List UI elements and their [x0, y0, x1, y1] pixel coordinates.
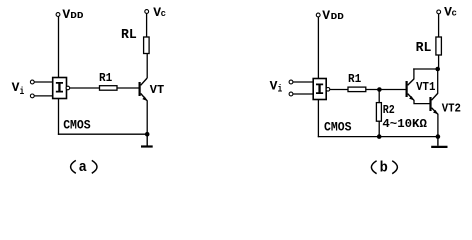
svg-text:I: I [55, 79, 65, 97]
svg-text:CMOS: CMOS [324, 119, 352, 134]
svg-text:V: V [62, 7, 70, 22]
wire RL bottom to collector (a) [146, 54, 148, 79]
svg-text:c: c [452, 9, 457, 19]
svg-text:DD: DD [331, 12, 345, 22]
svg-text:b: b [380, 160, 388, 177]
transistor VT2 (b) [431, 93, 462, 115]
resistor RL (a) [121, 28, 149, 54]
junction emitter/ground (a) [145, 132, 150, 137]
wire inverter bottom rail (b) [317, 100, 319, 138]
svg-text:CMOS: CMOS [63, 118, 91, 133]
resistor R2 (b) [376, 103, 394, 122]
transistor VT1 (b) [407, 79, 436, 101]
transistor VT (a) [140, 78, 165, 101]
terminal VDD (b) [316, 8, 344, 23]
terminal VDD (a) [56, 7, 84, 22]
svg-text:DD: DD [70, 11, 84, 21]
wire input upper (a) [34, 81, 52, 83]
node Vi (b) [270, 79, 283, 96]
wire RL bottom to collector node (b) [438, 55, 440, 69]
terminal Vc (b) [437, 5, 457, 20]
wire inverter bottom rail (a) [58, 99, 60, 135]
terminal Vc (a) [145, 5, 166, 20]
terminal Vi upper (a) [30, 80, 34, 84]
wire R1 to VT base (a) [117, 87, 139, 89]
wire input upper (b) [293, 81, 313, 83]
resistor R1 (b) [348, 72, 366, 92]
ground (a) [141, 134, 153, 146]
svg-text:RL: RL [121, 28, 137, 43]
svg-text:VT1: VT1 [416, 80, 435, 94]
wire collector top rail (b) [413, 68, 438, 70]
svg-text:4~10KΩ: 4~10KΩ [382, 117, 427, 131]
inverter U2 "I" (b) [313, 79, 330, 100]
caption (a) [71, 159, 97, 176]
wire inverter output to R1 (a) [70, 87, 100, 89]
svg-text:R2: R2 [383, 103, 395, 117]
wire Vc to RL (a) [146, 13, 148, 37]
wire Vc to RL (b) [438, 14, 440, 37]
wire R1 to VT1 base (b) [366, 89, 406, 91]
wire VDD rail (b) [317, 17, 319, 79]
wire R2 bottom lead (b) [378, 121, 380, 137]
junction RL/collectors (b) [435, 67, 440, 72]
terminal Vi lower (b) [289, 92, 293, 96]
wire inverter output to R1 (b) [330, 89, 348, 91]
resistor RL (b) [416, 37, 442, 56]
node Vi (a) [12, 80, 25, 98]
wire VT2 emitter down (b) [437, 114, 439, 137]
wire VDD rail (a) [58, 16, 60, 77]
junction R2 tap (b) [377, 87, 382, 92]
junction R2/bottom wire (b) [377, 134, 382, 139]
wire VT emitter down (a) [146, 101, 148, 135]
svg-text:c: c [161, 9, 166, 19]
terminal Vi lower (a) [30, 94, 34, 98]
wire input lower (a) [34, 95, 52, 97]
wire bottom horizontal (b) [318, 136, 438, 138]
svg-text:a: a [79, 159, 87, 176]
caption (b) [371, 160, 397, 177]
inverter U1 "I" (a) [53, 78, 70, 99]
svg-text:VT2: VT2 [442, 102, 461, 116]
resistor R1 (a) [99, 71, 117, 90]
svg-text:i: i [278, 84, 283, 96]
wire VT1 collector up (b) [413, 68, 415, 79]
junction emitter/ground (b) [436, 134, 441, 139]
svg-text:V: V [12, 80, 20, 95]
svg-text:V: V [270, 79, 278, 94]
wire VT1 emitter to VT2 base (b) [414, 100, 430, 104]
svg-text:R1: R1 [348, 72, 361, 86]
wire bottom horizontal (a) [58, 133, 147, 135]
ground (b) [431, 137, 447, 147]
svg-text:V: V [322, 8, 330, 23]
wire R2 top lead (b) [378, 90, 380, 103]
svg-text:VT: VT [150, 83, 164, 97]
svg-text:R1: R1 [99, 71, 112, 85]
wire input lower (b) [293, 93, 313, 95]
wire VT2 collector up (b) [437, 69, 439, 94]
terminal Vi upper (b) [289, 80, 293, 84]
svg-text:I: I [315, 81, 325, 99]
svg-text:i: i [20, 86, 25, 98]
svg-text:RL: RL [416, 41, 432, 56]
